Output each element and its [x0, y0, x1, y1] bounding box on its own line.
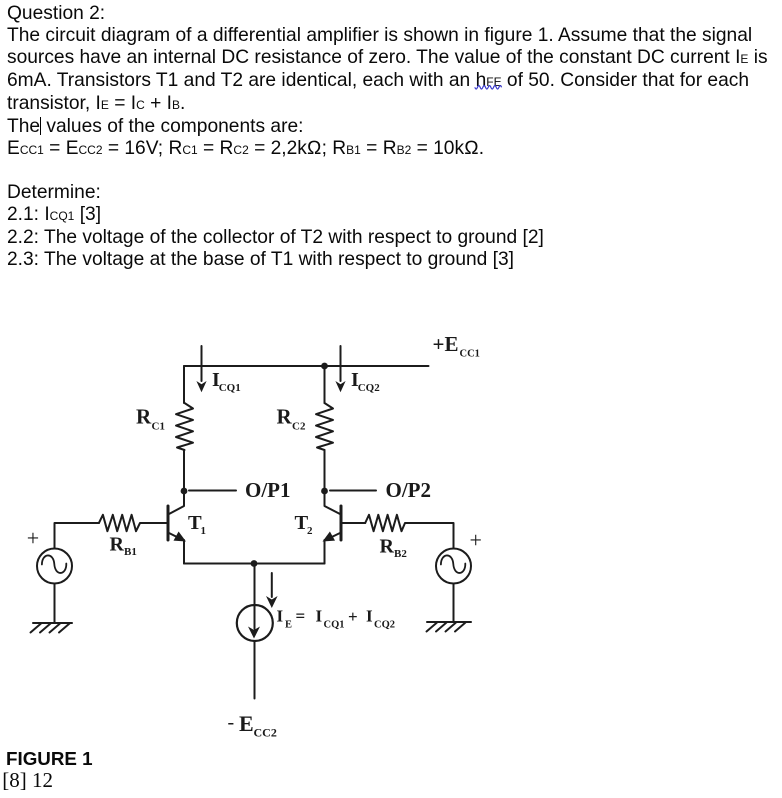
wire O/P1 lead [189, 490, 236, 492]
label -ECC2 [228, 711, 277, 740]
svg-text:+: + [27, 526, 39, 551]
wire source1 to ground [54, 584, 56, 624]
svg-text:O/P2: O/P2 [386, 478, 432, 502]
transistor T1 [168, 494, 186, 564]
svg-text:CC2: CC2 [254, 726, 277, 740]
svg-text:C1: C1 [152, 421, 165, 433]
current source IE [237, 605, 273, 641]
source V1 (sine) [37, 549, 72, 584]
svg-text:B2: B2 [394, 548, 407, 560]
wire source2 to ground [453, 584, 455, 623]
wire source1 to RB1 [55, 523, 99, 549]
svg-text:=: = [296, 607, 306, 626]
question text block [7, 3, 768, 161]
label O/P1 [245, 478, 291, 502]
source V2 (sine) [436, 549, 471, 584]
page number [2, 768, 53, 793]
svg-text:2: 2 [307, 525, 313, 537]
wire right collector drop [324, 366, 326, 403]
svg-text:C2: C2 [292, 421, 306, 433]
svg-text:O/P1: O/P1 [245, 478, 291, 502]
svg-text:CQ2: CQ2 [358, 382, 381, 394]
svg-text:R: R [136, 405, 152, 429]
current arrow IE external [266, 573, 278, 608]
svg-text:1: 1 [201, 525, 207, 537]
label IE equation [277, 607, 396, 631]
svg-text:-: - [228, 712, 235, 734]
label O/P2 [386, 478, 432, 502]
label RC1 [136, 405, 165, 433]
resistor RB2 [365, 515, 408, 531]
svg-text:I: I [277, 607, 284, 626]
resistor RC2 [316, 403, 333, 450]
wire emitter bus [184, 563, 325, 565]
wire base T2 [341, 522, 365, 524]
svg-text:CQ2: CQ2 [374, 620, 395, 631]
label ICQ2 [351, 369, 380, 394]
determine text block [7, 182, 544, 271]
label + left [27, 526, 39, 551]
svg-text:I: I [316, 607, 323, 626]
svg-text:B1: B1 [124, 546, 137, 558]
svg-text:I: I [366, 607, 373, 626]
svg-text:+: + [470, 528, 482, 553]
ground left [31, 623, 73, 633]
svg-text:+E: +E [433, 332, 459, 356]
resistor RC1 [176, 403, 193, 450]
resistor RB1 [99, 515, 142, 531]
label +ECC1 [433, 332, 480, 360]
label RB1 [110, 534, 137, 558]
wire RB2 to source2 [408, 523, 454, 549]
wire current source to -ECC2 [254, 641, 256, 699]
wire O/P2 lead [330, 490, 376, 492]
svg-text:E: E [239, 711, 254, 736]
node O/P1 dot [181, 488, 188, 495]
ground right [427, 622, 472, 632]
node junction dot top [321, 363, 328, 370]
wire base T1 [142, 522, 168, 524]
label RC2 [277, 405, 306, 433]
wire top rail [184, 365, 429, 367]
wire RC2 to OP2 node [324, 450, 326, 491]
current arrow ICQ1 [196, 346, 206, 392]
node emitter junction dot [251, 560, 258, 567]
node O/P2 dot [321, 488, 328, 495]
svg-text:E: E [285, 620, 292, 631]
label ICQ1 [212, 369, 241, 394]
svg-text:+: + [348, 607, 358, 626]
wire bus to current source [254, 564, 256, 607]
label T1 [188, 512, 206, 537]
transistor T2 [323, 494, 342, 564]
wire RC1 to OP1 node [183, 450, 185, 491]
svg-text:CQ1: CQ1 [324, 620, 345, 631]
label RB2 [380, 536, 408, 561]
label + right [470, 528, 482, 553]
svg-text:CQ1: CQ1 [219, 382, 241, 394]
svg-text:R: R [277, 405, 293, 429]
current arrow ICQ2 [335, 346, 345, 392]
svg-text:R: R [380, 536, 395, 558]
wire left collector drop [183, 366, 185, 403]
svg-text:R: R [110, 534, 125, 556]
svg-text:CC1: CC1 [460, 349, 480, 360]
figure caption [6, 748, 93, 770]
label T2 [295, 512, 314, 537]
